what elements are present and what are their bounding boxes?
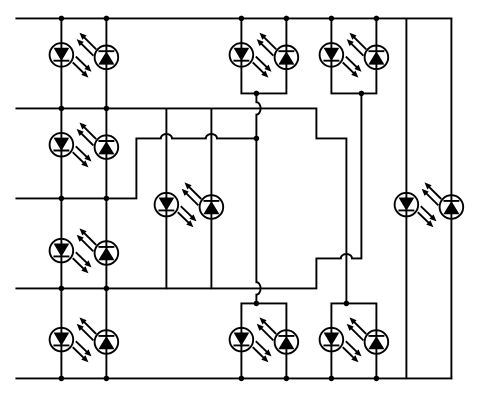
- junction: column B / rail N4: [104, 286, 110, 292]
- wire: center column B vertical (x=211.4) from N2 to N4: [210, 108, 212, 288]
- junction: top-center bank to mid link wire: [254, 91, 260, 97]
- LED D13 (light-emitting diode, cathode down): [50, 239, 92, 274]
- junction: bottom-center bank left / bottom rail: [239, 376, 245, 382]
- LED D9 (light-emitting diode, cathode down): [155, 193, 197, 228]
- wire: right-edge vertical joining top and bottom rails (x=451.4): [450, 18, 452, 378]
- junction: top-right bank left / top rail: [329, 16, 335, 22]
- LED D3 (light-emitting diode, cathode down): [230, 43, 272, 78]
- junction: bottom-center bank to mid link wire: [254, 301, 260, 307]
- LED D15 (light-emitting diode, cathode down): [50, 328, 92, 363]
- LED D7 (light-emitting diode, cathode down): [50, 133, 92, 168]
- junction: bottom-right bank left / bottom rail: [329, 376, 335, 382]
- LED D1 (light-emitting diode, cathode down): [50, 43, 92, 78]
- junction: column A / rail N2: [59, 106, 65, 112]
- junction: top-center bank left / top rail: [239, 16, 245, 22]
- LED D11 (light-emitting diode, cathode down): [395, 193, 437, 228]
- wire: right pair vertical (x=406.4): [405, 18, 407, 378]
- LED D14 (light-emitting diode, cathode up): [77, 228, 119, 264]
- wire: rail N2 (y=108.4) with staircase down to bottom-right LED bank: [16, 108, 346, 303]
- wire: top rail net N1 (y=18.4): [16, 17, 451, 19]
- junction: top-right bank to N4 riser: [359, 91, 365, 97]
- junction: column A / bottom rail: [59, 376, 65, 382]
- junction: column A / top rail: [59, 16, 65, 22]
- LED D10 (light-emitting diode, cathode up): [182, 182, 224, 218]
- junction: bottom-center bank right / bottom rail: [284, 376, 290, 382]
- wire: rail N4 (y=288.4) with staircase up to top-right LED bank: [16, 93, 361, 288]
- junction: column A / rail N3: [59, 196, 65, 202]
- LED D16 (light-emitting diode, cathode up): [77, 317, 119, 353]
- wire: left column B vertical (x=106.4): [105, 18, 107, 378]
- wire: top-right LED bank frame: [331, 18, 376, 93]
- junction: column A / rail N4: [59, 286, 65, 292]
- LED D17 (light-emitting diode, cathode down): [230, 328, 272, 363]
- junction: column B / top rail: [104, 16, 110, 22]
- wire: left column A vertical (x=61.4): [60, 18, 62, 378]
- junction: column B / rail N3: [104, 196, 110, 202]
- wire: rail N3 (y=198.4) rising at x=136.4 then east, hopping columns, to node at x=256.4: [16, 134, 256, 198]
- wire: top-center LED bank frame: [241, 18, 286, 93]
- LED D12 (light-emitting diode, cathode up): [422, 182, 464, 218]
- LED D5 (light-emitting diode, cathode down): [320, 43, 362, 78]
- LED D6 (light-emitting diode, cathode up): [347, 33, 389, 69]
- LED D2 (light-emitting diode, cathode up): [77, 33, 119, 69]
- wire: bottom-right LED bank frame: [331, 303, 376, 378]
- LED D8 (light-emitting diode, cathode up): [77, 123, 119, 159]
- LED D4 (light-emitting diode, cathode up): [257, 33, 299, 69]
- junction: bottom-right bank to N2 drop: [344, 301, 350, 307]
- junction: bottom-right bank right / bottom rail: [374, 376, 380, 382]
- wire: bottom rail net N5 (y=378.4): [16, 377, 451, 379]
- LED D20 (light-emitting diode, cathode up): [347, 317, 389, 353]
- junction: N3 wire meets mid link: [254, 136, 260, 142]
- wire: center column A vertical (x=166.4) from N2 to N4: [165, 108, 167, 288]
- wire: mid link vertical (x=256.4) hopping over rails N2 and N4: [256, 93, 260, 303]
- junction: top-center bank right / top rail: [284, 16, 290, 22]
- junction: top-right bank right / top rail: [374, 16, 380, 22]
- wire: bottom-center LED bank frame: [241, 303, 286, 378]
- junction: column B / bottom rail: [104, 376, 110, 382]
- LED D18 (light-emitting diode, cathode up): [257, 317, 299, 353]
- LED D19 (light-emitting diode, cathode down): [320, 328, 362, 363]
- junction: column B / rail N2: [104, 106, 110, 112]
